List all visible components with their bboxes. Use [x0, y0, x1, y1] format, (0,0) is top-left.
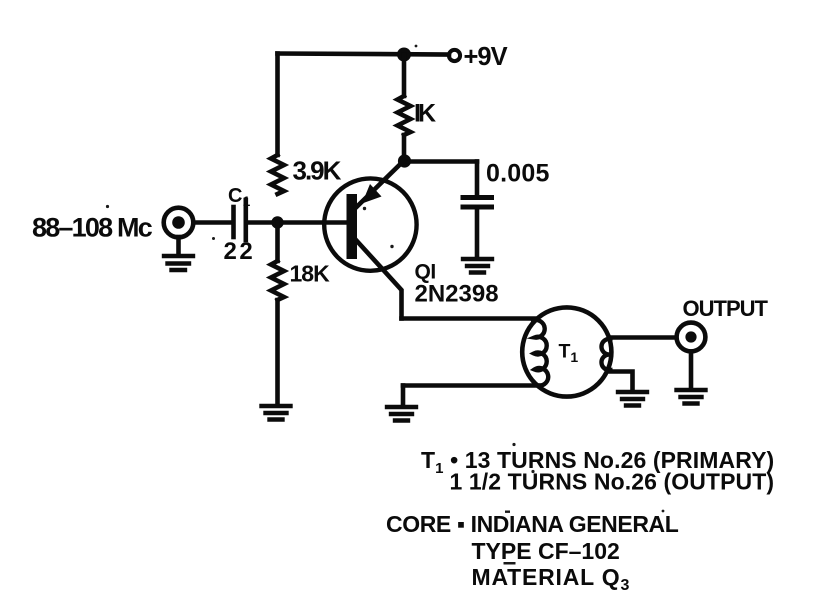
svg-text:+9V: +9V	[464, 43, 508, 71]
wire 18K to ground	[275, 300, 280, 404]
node supply junction	[397, 48, 411, 62]
svg-text:IK: IK	[414, 100, 436, 128]
svg-text:T1: T1	[559, 341, 579, 366]
ground (bypass cap)	[463, 259, 492, 273]
wire input to C1	[194, 220, 232, 225]
wire collector node to bypass cap	[404, 159, 477, 164]
wire secondary top to output	[610, 335, 675, 340]
output connector	[677, 323, 706, 352]
wire output connector to ground	[689, 352, 694, 389]
wire secondary bottom to ground	[611, 372, 633, 391]
svg-text:0.005: 0.005	[486, 160, 550, 188]
svg-text:88–108 Mc: 88–108 Mc	[32, 213, 153, 243]
ground (secondary)	[618, 392, 647, 406]
wire 3.9K up to top rail	[275, 54, 280, 156]
node divider junction	[271, 216, 283, 228]
wire top rail	[278, 54, 450, 55]
transformer primary winding	[533, 320, 548, 386]
svg-text:MATERIAL Q3: MATERIAL Q3	[472, 564, 631, 594]
wire +9V junction to 1K	[402, 55, 407, 97]
capacitor C1	[234, 200, 246, 240]
capacitor 0.005	[463, 198, 492, 208]
transformer T1 circle	[522, 307, 611, 396]
transistor Q1	[324, 178, 416, 270]
svg-text:C1: C1	[228, 185, 250, 209]
transistor emitter lead	[356, 240, 402, 319]
wire input connector to ground	[176, 237, 181, 254]
input connector	[164, 208, 194, 238]
svg-text:3.9K: 3.9K	[293, 156, 342, 186]
svg-text:TYPE CF–102: TYPE CF–102	[472, 538, 620, 564]
svg-text:2N2398: 2N2398	[415, 281, 499, 308]
resistor 18K	[271, 261, 284, 300]
resistor 3.9K	[271, 155, 284, 194]
ground (output)	[677, 390, 706, 404]
terminal +9V	[449, 50, 460, 61]
ground (input)	[164, 256, 193, 270]
wire emitter to transformer	[402, 316, 536, 321]
ground (primary return)	[387, 407, 416, 421]
svg-text:22: 22	[224, 238, 256, 265]
transistor arrow	[362, 184, 382, 204]
svg-text:CORE ▪ INDIANA GENERAL: CORE ▪ INDIANA GENERAL	[386, 511, 679, 537]
svg-text:1 1/2 TURNS No.26 (OUTPUT): 1 1/2 TURNS No.26 (OUTPUT)	[450, 469, 775, 495]
wire C1 to base	[248, 220, 346, 225]
wire bypass cap to ground	[475, 209, 480, 257]
transistor base bar	[347, 194, 358, 259]
svg-text:OUTPUT: OUTPUT	[683, 296, 769, 321]
scan specks	[106, 45, 664, 565]
transistor collector lead	[356, 161, 404, 208]
ground (18K)	[262, 406, 291, 420]
transformer secondary winding	[601, 339, 610, 370]
wire 1K to collector node	[402, 135, 407, 161]
wire divider junction to 18K	[275, 223, 280, 262]
wire transformer primary bottom	[403, 383, 540, 388]
resistor 1K	[398, 96, 411, 135]
svg-text:18K: 18K	[290, 261, 331, 287]
node collector junction	[398, 154, 411, 167]
